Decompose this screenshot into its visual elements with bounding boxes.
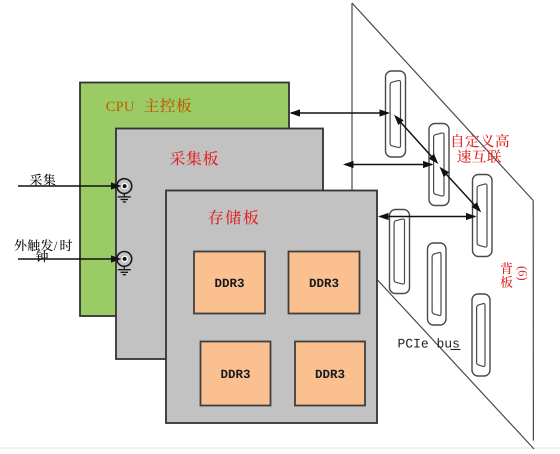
wire: storage board to J3 double arrow [380,216,475,218]
label: 背板 (vertical) [501,262,513,274]
wire: J1 to J2 diagonal double arrow [396,117,437,163]
ground symbol under CN2 [118,266,131,274]
wire: CPU board to J1 double arrow [291,112,388,114]
label: 采集板 [170,151,185,166]
DDR3 chip U3 [201,342,271,406]
wire: J2 to J3 diagonal double arrow [441,169,480,211]
label: (6) rotated [516,267,527,280]
backplane connector J5 [428,243,447,325]
BNC connector CN1 [117,179,132,194]
backplane top edge [352,3,533,201]
CPU main control board (green) [80,83,289,317]
backplane connector J4 [390,210,410,294]
DDR3 chip U1 [194,252,265,314]
backplane connector J3 [473,175,493,257]
faint page rule at bottom [0,447,560,449]
wire: 外触发/时钟 input line with arrowhead [18,258,112,260]
label: 外触发/时钟 [14,239,26,251]
backplane connector J2 [429,124,449,206]
ground symbol under CN1 [118,194,131,202]
label: PCIe bus [399,339,405,348]
DDR3 chip U4 [295,342,365,406]
label: 采集 [30,174,42,186]
DDR3 chip U2 [289,252,360,314]
backplane bottom edge [353,254,534,450]
label: 存储板 [208,210,222,225]
wire: acquisition board to J2 double arrow [345,164,432,166]
acquisition board 采集板 [116,129,323,360]
wire: 采集 input line with arrowhead [18,185,112,187]
label: 自定义高速互联 [453,134,463,147]
backplane panel [352,3,533,445]
BNC connector CN2 [117,252,132,267]
backplane right edge [532,201,534,441]
label: CPU 主控板 [106,102,114,112]
backplane connector J1 [386,71,406,157]
storage board 存储板 [166,191,377,424]
backplane connector J6 [472,294,490,376]
backplane left edge [351,3,353,253]
